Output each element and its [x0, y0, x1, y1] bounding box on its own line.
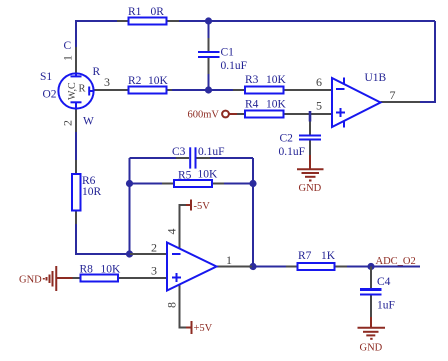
svg-text:W: W	[83, 116, 94, 128]
resistor R2 pins	[167, 89, 173, 91]
power port +5V	[186, 321, 213, 334]
wire right vertical from top row down to op-amp output	[419, 21, 435, 102]
label S1 O2	[40, 71, 57, 101]
resistor R5 pins	[162, 183, 224, 185]
node junction at op-amp output	[249, 263, 256, 270]
svg-text:1K: 1K	[321, 250, 336, 262]
wire feedback right vertical	[252, 158, 254, 267]
pin name R	[93, 66, 101, 78]
capacitor C2 pins	[309, 119, 311, 156]
svg-text:GND: GND	[299, 183, 322, 194]
node junction on pin2 wire	[126, 250, 133, 257]
node junction feedback right on R5 row	[249, 180, 256, 187]
wire R7 to ADC node	[345, 266, 371, 268]
pin number 2 U1A	[151, 241, 157, 255]
resistor R6 pins	[75, 160, 77, 224]
svg-text:R7: R7	[298, 250, 312, 262]
svg-text:1: 1	[61, 55, 75, 61]
svg-text:2: 2	[61, 120, 75, 126]
svg-text:R: R	[79, 84, 86, 95]
svg-text:GND: GND	[19, 275, 42, 286]
svg-text:+5V: +5V	[194, 323, 213, 334]
pin number 5 U1B	[316, 99, 322, 113]
svg-text:R5: R5	[178, 170, 192, 182]
sensor S1	[58, 73, 93, 108]
resistor R6	[72, 174, 81, 211]
svg-text:2: 2	[151, 241, 157, 255]
op-amp U1A pin 8	[180, 284, 189, 328]
resistor R8 pins	[71, 277, 130, 279]
label C4 value 1uF	[377, 276, 395, 312]
svg-text:600mV: 600mV	[188, 110, 220, 121]
label U1B	[365, 72, 387, 84]
label R8 value 10K	[80, 264, 122, 276]
svg-text:O2: O2	[43, 89, 57, 101]
node junction at C1 bottom row	[205, 86, 212, 93]
svg-text:C2: C2	[280, 133, 294, 145]
op-amp U1B	[332, 78, 381, 128]
net label ADC_O2	[376, 256, 416, 267]
pin number 6 U1B	[316, 75, 322, 89]
resistor R8	[81, 275, 119, 282]
svg-text:C: C	[64, 40, 72, 52]
svg-text:10K: 10K	[266, 99, 287, 111]
resistor R7	[298, 263, 335, 270]
svg-text:10K: 10K	[266, 74, 287, 86]
svg-text:0.1uF: 0.1uF	[198, 146, 225, 158]
label R7 value 1K	[298, 250, 336, 262]
pin name C	[64, 40, 72, 52]
wire S1 pin2 down to R6	[75, 131, 77, 162]
capacitor C1	[198, 52, 220, 57]
power port -5V	[186, 200, 210, 213]
label R5 value 10K	[178, 169, 218, 182]
label R6 value 10R	[82, 175, 102, 198]
resistor R7 pins	[286, 266, 347, 268]
resistor R2	[129, 87, 167, 94]
svg-text:C3: C3	[172, 146, 186, 158]
capacitor C4	[360, 290, 382, 295]
svg-text:10K: 10K	[101, 264, 122, 276]
op-amp U1B pin 7	[381, 101, 421, 103]
svg-text:S1: S1	[40, 71, 52, 83]
label R3 value 10K	[245, 74, 287, 86]
wire C1 column	[208, 21, 210, 90]
op-amp U1A pin 1 output	[217, 266, 253, 268]
svg-text:7: 7	[390, 88, 396, 102]
node junction feedback left on R5 row	[126, 180, 133, 187]
resistor R5	[174, 180, 212, 187]
pin number 3 U1A	[151, 264, 157, 278]
svg-text:R8: R8	[80, 264, 94, 276]
pin number 1 S1 rotated	[61, 55, 75, 61]
label C1 value 0.1uF	[221, 47, 248, 73]
ground GND below C2	[297, 155, 324, 194]
capacitor C4 pins	[370, 267, 372, 319]
svg-text:-5V: -5V	[194, 201, 211, 212]
svg-text:0R: 0R	[151, 6, 165, 18]
wire ADC_O2 net stub	[371, 266, 420, 268]
wire feedback left vertical	[129, 158, 131, 254]
svg-text:R4: R4	[245, 99, 259, 111]
svg-text:8: 8	[165, 302, 179, 308]
svg-text:C4: C4	[377, 276, 391, 288]
label R2 value 10K	[128, 75, 169, 87]
resistor R1 pins	[117, 20, 179, 22]
svg-text:R1: R1	[128, 6, 142, 18]
pin number 2 S1 rotated	[61, 120, 75, 126]
ground GND below C4	[358, 317, 386, 354]
pin number 3 S1	[104, 75, 110, 89]
S1 pin 3	[93, 89, 129, 91]
node junction at ADC_O2	[367, 263, 374, 270]
pin number 7 U1B	[390, 88, 396, 102]
op-amp U1A pin 2	[130, 253, 167, 255]
svg-text:R3: R3	[245, 74, 259, 86]
wire output to R7	[252, 266, 288, 268]
node junction at op-amp pin5 C2 tap	[309, 111, 312, 122]
svg-text:1: 1	[226, 253, 232, 267]
wire top row from S1 pin1 corner through R1 to output corner	[76, 21, 435, 47]
svg-text:0.1uF: 0.1uF	[221, 60, 248, 72]
svg-text:10K: 10K	[148, 75, 169, 87]
svg-text:5: 5	[316, 99, 322, 113]
op-amp U1A	[167, 243, 217, 291]
svg-text:0.1uF: 0.1uF	[279, 146, 306, 158]
svg-text:GND: GND	[360, 343, 383, 354]
op-amp U1A pin 3	[129, 277, 167, 279]
wire R5 row	[130, 183, 254, 185]
S1 pin 1	[75, 47, 77, 74]
svg-text:C1: C1	[221, 47, 235, 59]
resistor R4	[245, 111, 284, 118]
svg-text:4: 4	[165, 229, 179, 235]
node junction at R1-C1 top	[205, 17, 212, 24]
S1 pin 2	[75, 108, 77, 132]
svg-text:6: 6	[316, 75, 322, 89]
label R4 value 10K	[245, 99, 287, 111]
svg-text:R2: R2	[128, 75, 142, 87]
resistor R1	[129, 18, 167, 25]
ground GND left of R8	[19, 266, 73, 291]
resistor R3 pins	[233, 89, 332, 91]
svg-text:3: 3	[104, 75, 110, 89]
resistor R3	[245, 87, 284, 94]
svg-text:U1B: U1B	[365, 72, 387, 84]
capacitor C3	[190, 147, 195, 168]
svg-text:3: 3	[151, 264, 157, 278]
pin number 8 U1A rotated	[165, 302, 179, 308]
svg-text:10R: 10R	[82, 186, 102, 198]
svg-text:10K: 10K	[198, 169, 219, 181]
svg-text:W,C: W,C	[67, 82, 78, 100]
capacitor C2	[299, 136, 321, 140]
capacitor C1 pins	[208, 38, 210, 74]
resistor R4 pins	[235, 113, 332, 115]
svg-text:1uF: 1uF	[377, 300, 395, 312]
capacitor C3 pins	[176, 157, 210, 159]
power port 600mV	[188, 110, 238, 121]
wire R6 bottom down to pin2 row corner	[76, 222, 131, 254]
wire R2 right to junction to R3 left	[171, 89, 234, 91]
label C3 value 0.1uF	[172, 146, 225, 158]
label R1 value 0R	[128, 6, 164, 18]
pin name W	[83, 116, 94, 128]
wire C3 row	[130, 157, 254, 159]
pin number 1 U1A	[226, 253, 232, 267]
label C2 value 0.1uF	[279, 133, 306, 159]
op-amp U1A pin 4	[180, 205, 189, 249]
svg-text:ADC_O2: ADC_O2	[376, 256, 416, 267]
pin number 4 U1A rotated	[165, 229, 179, 235]
svg-text:R: R	[93, 66, 101, 78]
